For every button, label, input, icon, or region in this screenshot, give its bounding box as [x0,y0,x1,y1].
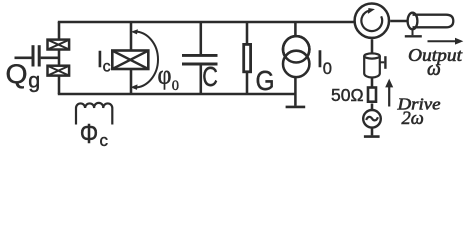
svg-text:ω: ω [427,59,441,80]
svg-text:0: 0 [323,60,332,78]
svg-text:g: g [28,69,40,93]
svg-text:Q: Q [6,59,28,89]
svg-text:0: 0 [172,78,179,94]
svg-text:φ: φ [158,60,172,90]
svg-text:G: G [256,65,275,96]
svg-text:2ω: 2ω [402,109,424,129]
svg-text:c: c [103,59,111,76]
svg-text:Φ: Φ [80,118,99,149]
svg-text:C: C [202,61,218,92]
svg-text:c: c [100,131,109,150]
svg-text:50Ω: 50Ω [331,85,364,105]
